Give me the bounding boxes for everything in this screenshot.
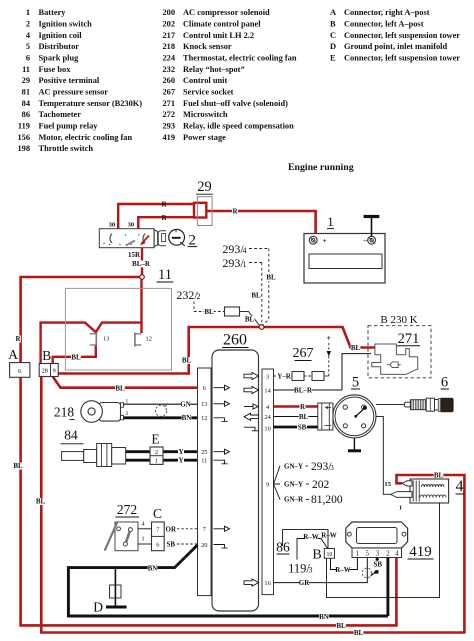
svg-text:2: 2	[386, 550, 390, 558]
svg-text:Battery: Battery	[39, 8, 67, 17]
svg-text:GR: GR	[299, 579, 310, 587]
svg-text:BL: BL	[351, 344, 361, 352]
svg-text:11: 11	[158, 267, 172, 283]
svg-text:14: 14	[264, 387, 271, 394]
svg-text:218: 218	[54, 405, 75, 420]
svg-text:1: 1	[141, 536, 144, 543]
svg-text:BL: BL	[336, 622, 346, 630]
svg-text:293/: 293/	[222, 256, 244, 270]
svg-text:202: 202	[162, 20, 175, 29]
svg-text:Microswitch: Microswitch	[183, 110, 228, 119]
svg-text:232: 232	[162, 65, 175, 74]
svg-text:198: 198	[17, 144, 30, 153]
svg-text:BN: BN	[148, 564, 158, 572]
svg-text:Control unit LH 2.2: Control unit LH 2.2	[183, 31, 254, 40]
svg-text:GN–Y: GN–Y	[284, 481, 303, 489]
svg-text:218: 218	[162, 42, 175, 51]
svg-text:16: 16	[264, 580, 270, 587]
svg-text:15: 15	[384, 481, 391, 488]
svg-text:3: 3	[309, 566, 313, 575]
svg-text:2: 2	[26, 20, 30, 29]
svg-text:29: 29	[197, 179, 212, 195]
svg-text:Y: Y	[178, 448, 183, 456]
svg-text:BL: BL	[354, 629, 364, 637]
svg-text:Positive terminal: Positive terminal	[39, 76, 100, 85]
svg-text:20: 20	[201, 542, 207, 549]
svg-text:Tachometer: Tachometer	[39, 110, 82, 119]
svg-text:6: 6	[441, 375, 448, 391]
svg-text:–: –	[363, 236, 368, 245]
svg-text:1: 1	[327, 214, 334, 229]
svg-text:BL: BL	[182, 357, 192, 365]
svg-text:5: 5	[26, 42, 30, 51]
svg-text:BL: BL	[71, 354, 81, 362]
svg-text:293: 293	[162, 122, 175, 131]
svg-text:2: 2	[197, 292, 201, 301]
svg-text:D: D	[330, 42, 336, 51]
svg-text:30: 30	[109, 221, 116, 228]
svg-text:BL: BL	[434, 472, 444, 480]
svg-text:GN–Y: GN–Y	[284, 463, 303, 471]
svg-text:84: 84	[22, 99, 31, 108]
svg-text:13: 13	[103, 336, 109, 343]
svg-text:Fuse box: Fuse box	[39, 65, 72, 74]
svg-text:1: 1	[155, 458, 158, 465]
svg-text:272: 272	[117, 502, 137, 517]
svg-text:24: 24	[264, 414, 271, 421]
svg-text:SB: SB	[298, 424, 307, 432]
svg-text:B 230 K: B 230 K	[380, 314, 417, 326]
svg-text:AC compressor solenoid: AC compressor solenoid	[183, 8, 270, 17]
svg-text:3: 3	[266, 373, 269, 380]
svg-text:BL: BL	[251, 292, 261, 300]
svg-text:E: E	[151, 432, 159, 447]
svg-text:SB: SB	[167, 541, 176, 549]
svg-text:12: 12	[201, 415, 207, 422]
svg-text:Engine running: Engine running	[288, 162, 354, 173]
svg-text:R–W: R–W	[303, 533, 319, 541]
svg-text:86: 86	[22, 110, 30, 119]
svg-text:BN: BN	[182, 414, 192, 422]
svg-text:A: A	[8, 347, 18, 362]
svg-text:Knock sensor: Knock sensor	[183, 42, 232, 51]
svg-text:GN–R: GN–R	[284, 496, 304, 504]
svg-text:25: 25	[201, 449, 207, 456]
svg-text:81,200: 81,200	[311, 494, 343, 506]
svg-text:Control unit: Control unit	[183, 76, 227, 85]
svg-text:1: 1	[243, 260, 247, 269]
svg-text:15R: 15R	[128, 251, 141, 259]
svg-text:D: D	[93, 600, 103, 615]
svg-text:6: 6	[156, 542, 159, 549]
svg-text:272: 272	[162, 110, 175, 119]
svg-text:13: 13	[201, 401, 207, 408]
svg-text:156: 156	[17, 133, 30, 142]
svg-text:3: 3	[376, 550, 380, 558]
svg-text:30: 30	[128, 221, 135, 228]
svg-text:Throttle switch: Throttle switch	[39, 144, 94, 153]
svg-text:202: 202	[312, 479, 330, 491]
svg-text:Ignition switch: Ignition switch	[39, 20, 93, 29]
svg-text:11: 11	[22, 65, 30, 74]
svg-text:4: 4	[141, 520, 144, 527]
svg-text:84: 84	[64, 428, 78, 443]
svg-text:R–W: R–W	[335, 566, 351, 574]
svg-text:Connector, left suspension tow: Connector, left suspension tower	[344, 31, 460, 40]
svg-text:1: 1	[126, 398, 129, 404]
svg-text:Connector, left suspension tow: Connector, left suspension tower	[344, 54, 460, 63]
svg-text:2: 2	[155, 449, 158, 456]
svg-text:+: +	[323, 236, 327, 245]
svg-text:5: 5	[366, 550, 370, 558]
svg-text:B: B	[330, 20, 336, 29]
svg-text:Y: Y	[178, 457, 183, 465]
svg-text:Thermostat, electric cooling f: Thermostat, electric cooling fan	[183, 54, 297, 63]
svg-text:Fuel shut–off valve (solenoid): Fuel shut–off valve (solenoid)	[183, 99, 288, 108]
svg-text:271: 271	[398, 331, 420, 347]
svg-text:3: 3	[330, 463, 334, 472]
svg-text:267: 267	[162, 88, 175, 97]
svg-text:86: 86	[276, 540, 290, 555]
svg-text:Ignition coil: Ignition coil	[39, 31, 83, 40]
svg-text:119/: 119/	[288, 562, 310, 576]
svg-text:4: 4	[456, 478, 464, 495]
svg-text:12: 12	[146, 336, 152, 343]
svg-text:Temperature sensor (B230K): Temperature sensor (B230K)	[39, 99, 143, 108]
svg-text:B: B	[42, 348, 51, 363]
svg-text:4: 4	[243, 246, 247, 255]
svg-text:260: 260	[223, 332, 247, 349]
svg-text:6: 6	[203, 385, 206, 392]
svg-text:Relay, idle speed compensation: Relay, idle speed compensation	[183, 122, 294, 131]
svg-text:BL: BL	[299, 413, 309, 421]
svg-text:C: C	[330, 31, 336, 40]
svg-text:BL: BL	[204, 308, 214, 316]
svg-text:AC pressure sensor: AC pressure sensor	[39, 88, 109, 97]
svg-text:224: 224	[162, 54, 175, 63]
svg-text:81: 81	[22, 88, 30, 97]
svg-text:232/: 232/	[176, 288, 198, 302]
svg-text:BL: BL	[36, 498, 46, 506]
svg-text:1: 1	[399, 505, 402, 512]
svg-text:267: 267	[293, 346, 314, 361]
svg-text:119: 119	[18, 122, 30, 131]
svg-text:1: 1	[26, 8, 30, 17]
svg-text:Power stage: Power stage	[183, 133, 226, 142]
svg-text:C: C	[153, 506, 162, 521]
svg-text:9: 9	[266, 481, 269, 488]
svg-text:293/: 293/	[222, 242, 244, 256]
svg-text:419: 419	[409, 544, 432, 560]
svg-text:200: 200	[162, 8, 175, 17]
svg-text:BL: BL	[266, 274, 276, 282]
svg-text:Fuel pump relay: Fuel pump relay	[39, 122, 99, 131]
svg-text:217: 217	[162, 31, 175, 40]
svg-text:4: 4	[395, 550, 399, 558]
svg-text:271: 271	[162, 99, 175, 108]
svg-text:OR: OR	[166, 525, 177, 533]
svg-text:10: 10	[264, 425, 270, 432]
svg-text:B: B	[312, 548, 321, 563]
svg-text:BL: BL	[115, 384, 125, 392]
svg-text:Relay “hot–spot”: Relay “hot–spot”	[183, 65, 245, 74]
svg-text:GN: GN	[180, 401, 191, 409]
svg-text:BL–R: BL–R	[294, 387, 313, 395]
svg-text:10: 10	[327, 552, 333, 558]
svg-text:Motor, electric cooling fan: Motor, electric cooling fan	[39, 133, 133, 142]
svg-text:1: 1	[356, 550, 360, 558]
svg-text:Spark plug: Spark plug	[39, 54, 80, 63]
svg-text:A: A	[330, 8, 336, 17]
svg-text:Distributor: Distributor	[39, 42, 80, 51]
svg-text:29: 29	[22, 76, 30, 85]
svg-text:28: 28	[42, 368, 48, 375]
svg-text:BN: BN	[319, 613, 329, 621]
svg-text:Connector, right A–post: Connector, right A–post	[344, 8, 430, 17]
svg-text:E: E	[330, 54, 336, 63]
svg-text:9: 9	[53, 368, 56, 375]
svg-text:11: 11	[201, 458, 207, 465]
svg-text:5: 5	[352, 375, 359, 391]
svg-text:Ground point, inlet manifold: Ground point, inlet manifold	[344, 42, 448, 51]
svg-text:Climate control panel: Climate control panel	[183, 20, 261, 29]
svg-text:Service socket: Service socket	[183, 88, 234, 97]
svg-text:BL: BL	[13, 462, 23, 470]
svg-text:+: +	[327, 334, 332, 343]
svg-text:BL–R: BL–R	[132, 260, 151, 268]
svg-text:SB: SB	[374, 561, 383, 569]
svg-text:6: 6	[26, 54, 30, 63]
svg-text:Connector, left A–post: Connector, left A–post	[344, 20, 424, 29]
svg-text:2: 2	[126, 411, 129, 417]
svg-text:R–W: R–W	[321, 532, 337, 540]
svg-text:BL: BL	[245, 316, 255, 324]
svg-text:260: 260	[162, 76, 175, 85]
svg-text:419: 419	[162, 133, 175, 142]
svg-text:Y–R: Y–R	[277, 373, 292, 381]
